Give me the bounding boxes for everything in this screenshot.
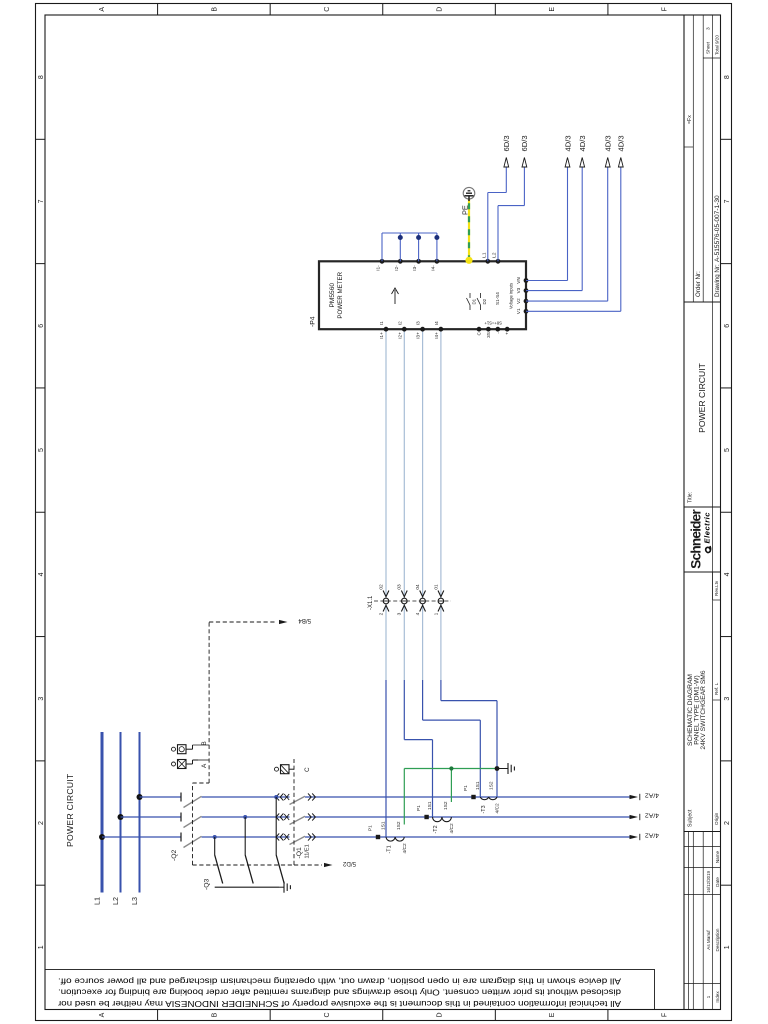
svg-text:I3-: I3-	[412, 265, 417, 271]
svg-text:I2+: I2+	[397, 332, 402, 339]
svg-text:disclosed without its prior wr: disclosed without its prior written cons…	[58, 988, 621, 998]
svg-text:Drawing Nr:: Drawing Nr:	[714, 264, 721, 297]
svg-text:Order Nr:: Order Nr:	[695, 271, 702, 297]
svg-text:5: 5	[724, 448, 731, 452]
svg-text:-T3: -T3	[481, 805, 487, 813]
svg-text:4D/3: 4D/3	[617, 135, 626, 151]
svg-text:L2: L2	[492, 252, 498, 258]
svg-text:4: 4	[724, 572, 731, 576]
svg-text:PM5560: PM5560	[329, 283, 336, 308]
svg-text:4D/3: 4D/3	[563, 135, 572, 151]
svg-text:1: 1	[38, 945, 45, 949]
svg-text:I4+: I4+	[434, 332, 439, 339]
svg-text:L1: L1	[93, 897, 102, 905]
svg-text:4/A2: 4/A2	[645, 832, 659, 839]
svg-text:P1: P1	[463, 785, 468, 791]
svg-text:1: 1	[433, 612, 439, 615]
svg-text:D: D	[437, 1012, 444, 1017]
svg-text:3S: 3S	[486, 332, 491, 338]
svg-text:-Q1: -Q1	[296, 847, 303, 859]
svg-text:V1: V1	[516, 308, 521, 314]
svg-text:4/A2: 4/A2	[645, 792, 659, 799]
svg-text:-T2: -T2	[433, 825, 439, 833]
svg-text:11/E1: 11/E1	[305, 844, 311, 858]
svg-text:3: 3	[724, 697, 731, 701]
svg-text:VN: VN	[516, 277, 521, 283]
svg-text:Name: Name	[715, 850, 720, 863]
svg-text:I2: I2	[397, 321, 402, 325]
svg-text:V2: V2	[516, 298, 521, 304]
svg-text:D: D	[437, 7, 444, 12]
svg-text:I4-: I4-	[430, 265, 435, 271]
svg-text:Description: Description	[715, 928, 720, 951]
svg-text:I1+: I1+	[379, 332, 384, 339]
svg-text:P1: P1	[368, 825, 373, 831]
svg-text:8: 8	[724, 75, 731, 79]
svg-text:1: 1	[706, 995, 712, 998]
svg-text:S1-S4: S1-S4	[495, 292, 500, 305]
svg-text:02: 02	[378, 584, 384, 590]
svg-text:4: 4	[38, 572, 45, 576]
svg-text:=Fx: =Fx	[687, 115, 693, 124]
svg-text:A-515576-05-007-1-30: A-515576-05-007-1-30	[714, 195, 721, 262]
svg-text:03: 03	[397, 584, 403, 590]
svg-text:-Q2: -Q2	[171, 849, 178, 861]
svg-text:E: E	[549, 1012, 556, 1017]
svg-text:Electric: Electric	[703, 512, 712, 544]
svg-text:S8+=S1+: S8+=S1+	[484, 321, 502, 326]
svg-text:1: 1	[724, 945, 731, 949]
svg-text:+: +	[505, 332, 510, 335]
svg-text:7: 7	[38, 199, 45, 203]
svg-text:3: 3	[397, 612, 403, 615]
svg-text:F: F	[662, 7, 669, 11]
svg-text:4/C2: 4/C2	[449, 823, 455, 833]
svg-text:I1-: I1-	[376, 265, 381, 271]
svg-text:D2: D2	[482, 298, 487, 304]
svg-text:I1: I1	[379, 321, 384, 325]
svg-text:6: 6	[724, 324, 731, 328]
svg-text:Ref. L: Ref. L	[714, 682, 719, 695]
svg-text:Subject: Subject	[688, 809, 694, 827]
svg-text:1S2: 1S2	[489, 781, 495, 790]
svg-text:Voltage inputs: Voltage inputs	[509, 283, 514, 309]
svg-text:A: A	[99, 1012, 106, 1017]
svg-text:Title:: Title:	[688, 492, 694, 503]
svg-text:L3: L3	[130, 897, 139, 905]
svg-text:24KV SWITCHGEAR SM6: 24KV SWITCHGEAR SM6	[700, 670, 707, 749]
svg-text:I3: I3	[416, 321, 421, 325]
svg-text:Total 9/20: Total 9/20	[715, 35, 720, 55]
svg-text:I4: I4	[434, 321, 439, 325]
svg-text:2: 2	[38, 821, 45, 825]
svg-text:A: A	[201, 763, 208, 768]
svg-text:5/D2: 5/D2	[342, 860, 356, 867]
svg-text:Index: Index	[715, 991, 720, 1003]
svg-text:4D/3: 4D/3	[604, 135, 613, 151]
svg-text:B: B	[211, 7, 218, 12]
svg-text:4D/3: 4D/3	[578, 135, 587, 151]
svg-text:C: C	[304, 767, 311, 772]
svg-text:-T1: -T1	[387, 845, 393, 853]
svg-text:C: C	[324, 1012, 331, 1017]
svg-text:All technical information cont: All technical information contained in t…	[58, 999, 621, 1009]
svg-text:4/A2: 4/A2	[645, 812, 659, 819]
svg-text:F: F	[662, 1013, 669, 1017]
svg-text:I2-: I2-	[394, 265, 399, 271]
svg-text:E: E	[549, 7, 556, 12]
svg-text:3: 3	[706, 27, 712, 30]
svg-text:POWER METER: POWER METER	[337, 271, 344, 318]
svg-text:L2: L2	[111, 897, 120, 905]
svg-text:D1: D1	[472, 298, 477, 304]
svg-text:Sheet: Sheet	[706, 41, 711, 54]
svg-text:6: 6	[38, 324, 45, 328]
svg-text:POWER CIRCUIT: POWER CIRCUIT	[65, 773, 75, 847]
svg-text:4/C2: 4/C2	[495, 803, 501, 813]
svg-text:7: 7	[724, 199, 731, 203]
svg-text:POWER CIRCUIT: POWER CIRCUIT	[697, 362, 707, 432]
svg-text:Schneider: Schneider	[689, 509, 704, 569]
svg-text:6D/3: 6D/3	[502, 135, 511, 151]
svg-text:C: C	[324, 7, 331, 12]
svg-text:V3: V3	[516, 287, 521, 293]
svg-text:3: 3	[38, 697, 45, 701]
svg-text:Date: Date	[715, 877, 720, 887]
svg-text:5/B4: 5/B4	[298, 617, 311, 624]
svg-text:All device shown in this diagr: All device shown in this diagram are in …	[58, 976, 621, 986]
svg-text:As Manuf: As Manuf	[706, 930, 711, 950]
svg-text:PE: PE	[461, 205, 470, 215]
svg-text:I3+: I3+	[416, 332, 421, 339]
svg-text:01: 01	[433, 584, 439, 590]
svg-text:6D/3: 6D/3	[520, 135, 529, 151]
svg-text:1S2: 1S2	[396, 821, 402, 830]
svg-text:L1: L1	[481, 252, 487, 258]
svg-text:-Q3: -Q3	[204, 878, 211, 890]
svg-text:B: B	[211, 1012, 218, 1017]
svg-text:1S2: 1S2	[443, 801, 449, 810]
svg-text:Rev.Ltv: Rev.Ltv	[714, 580, 719, 596]
svg-text:A: A	[99, 7, 106, 12]
svg-text:P1: P1	[416, 805, 421, 811]
svg-text:Origin: Origin	[714, 812, 719, 825]
svg-text:04: 04	[415, 584, 421, 590]
svg-text:-X1.1: -X1.1	[368, 595, 374, 610]
svg-text:4: 4	[415, 612, 421, 615]
svg-text:2: 2	[724, 821, 731, 825]
svg-text:2: 2	[378, 612, 384, 615]
svg-text:4/C2: 4/C2	[402, 843, 408, 853]
svg-text:5: 5	[38, 448, 45, 452]
svg-text:8: 8	[38, 75, 45, 79]
svg-text:-P4: -P4	[310, 316, 317, 327]
svg-text:16/12/2019: 16/12/2019	[706, 870, 711, 893]
